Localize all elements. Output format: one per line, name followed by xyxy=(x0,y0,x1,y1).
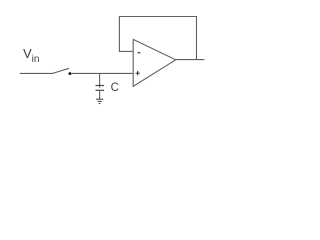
switch contact dot xyxy=(68,72,71,75)
wire inverting input segment xyxy=(119,50,133,52)
op-amp non-inverting input label + xyxy=(136,71,140,76)
wire output segment xyxy=(176,59,205,61)
wire input segment from Vin to switch pole xyxy=(20,72,54,74)
wire feedback right vertical xyxy=(196,16,198,60)
op-amp U1 triangle xyxy=(133,39,176,86)
wire feedback left vertical xyxy=(118,17,120,52)
wire feedback top horizontal xyxy=(119,16,197,18)
op-amp inverting input label - xyxy=(138,52,141,54)
ground xyxy=(96,99,103,103)
wire from capacitor to ground xyxy=(99,90,101,99)
wire capacitor stub from junction xyxy=(99,73,101,87)
wire from switch contact to op-amp non-inverting input xyxy=(71,72,133,74)
switch S1 (open arm) xyxy=(52,68,69,73)
svg-text:C: C xyxy=(111,82,119,94)
capacitor C plates xyxy=(96,86,105,91)
